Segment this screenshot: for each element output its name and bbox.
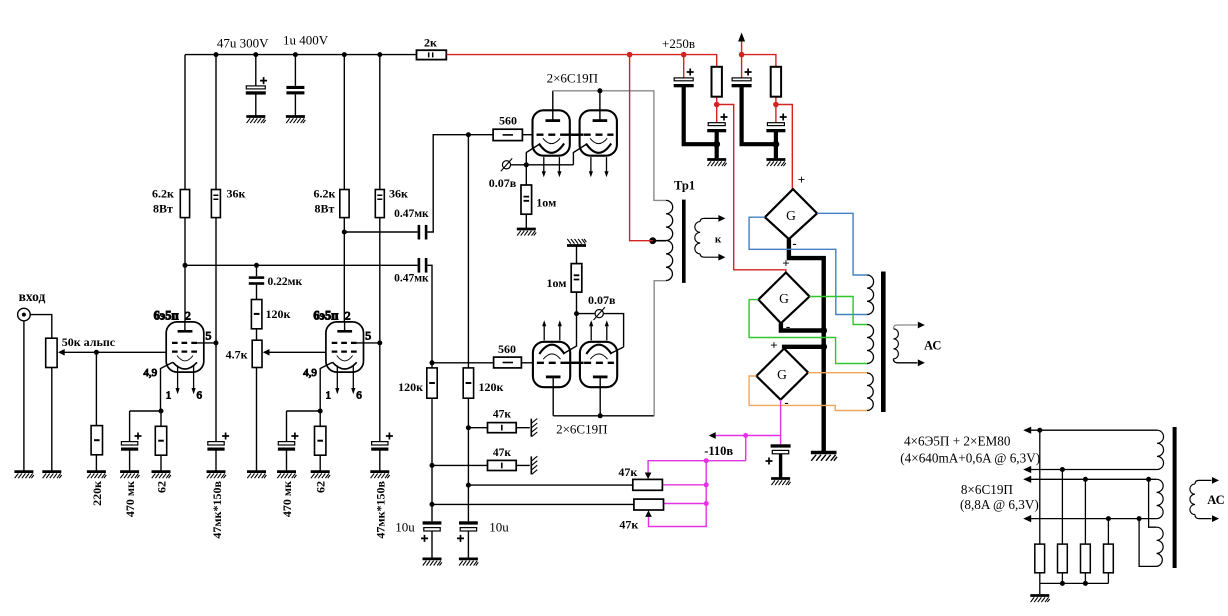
wire thick bus to G3 plus [784,347,824,349]
svg-text:G: G [777,367,787,382]
svg-text:1u 400V: 1u 400V [283,33,329,48]
resistor PSU R1 [712,67,722,97]
svg-text:к: к [715,234,722,246]
wire left screen lead [197,342,216,344]
svg-text:47u 300V: 47u 300V [217,36,269,51]
junction dot [466,483,471,488]
ground 62 left [152,472,171,479]
capacitor 10u right [457,521,478,542]
wire coupling cap C0.47a output up to upper 560 node [427,135,493,232]
wire right cathode [320,362,332,411]
junction dot [254,263,259,268]
wire orange G3 left to OPT coil3 bottom [749,376,867,411]
svg-text:вход: вход [19,289,46,304]
resistor 62 left [155,426,166,455]
svg-text:0.07в: 0.07в [588,293,616,307]
svg-text:50к альпс: 50к альпс [62,335,116,349]
wire pot bottom to ground [51,368,53,472]
wire lower grid dashes [537,362,614,364]
wire 220k branch [95,352,97,471]
junction dot [342,230,347,235]
chassis ground 47k-2 [531,456,537,474]
junction dot [430,502,435,507]
resistor 560 upper [493,129,522,140]
wire heater line 2 [1030,469,1157,471]
wire blue G1 right to OPT coil1 top [817,213,867,275]
wire magenta drop to pot row [745,436,747,461]
capacitor 47mk*150v left [207,433,229,451]
wire right 36k down to bypass cap [379,218,381,442]
wire magenta lower pot right [664,503,707,505]
wire humdinger R1 drop [1039,430,1041,583]
wire thick PSU group1 [684,86,717,158]
transformer heater winding A [1157,430,1164,469]
wire heater line 1 [1030,429,1157,431]
wire -110v cap to ground [779,454,782,478]
potentiometer 47k upper [633,479,663,490]
junction dot (red) [681,52,687,58]
node dots magenta [743,433,748,438]
potentiometer 50k volume [46,338,57,367]
arrow 4.7k wiper [263,349,270,356]
resistor 62 right [315,426,326,455]
tube U4 6C19P upper right [580,110,617,177]
test point 0.07v upper [501,158,512,171]
tube U3 6C19P upper left [533,110,570,177]
wire connector shell to ground [23,321,25,472]
svg-text:47к: 47к [619,518,638,532]
ground PSU group2 [766,160,785,167]
wire line4 to winding C bottom [1139,519,1157,567]
resistor 1om upper [521,185,532,214]
wire thick G1 minus to bus and bus to ground [789,239,824,452]
junction dot [1083,477,1088,482]
junction dot [377,340,382,345]
junction dot [597,88,602,93]
wire green G2 right to OPT coil2 top [810,297,868,325]
wire magenta pot row horizontal [648,461,746,473]
wire thick G2 minus to bus [781,323,824,330]
wire 1u cap stubs [294,55,296,117]
resistor 6.2k 8Bt right [340,190,349,218]
transformer Tr1 primary [666,200,673,280]
wire upper 1om branch [525,165,527,229]
svg-text:+: + [770,338,777,353]
wire 4.7k wiper from right grid [266,351,326,353]
junction dot (red) [714,102,720,108]
node dots left section [214,52,219,57]
svg-text:470 мк: 470 мк [123,481,137,517]
svg-text:0.07в: 0.07в [489,176,517,190]
wire upper 560 to tube grid [522,134,533,136]
capacitor PSU C2 [707,114,727,133]
svg-text:8×6С19П: 8×6С19П [961,482,1014,497]
tube U6 6C19P lower right [580,320,617,387]
wire 47k grid resistor 1 [468,427,529,429]
capacitor -110v filter [766,444,791,464]
junction dot [1137,516,1142,521]
wire below 47mk cap2 to ground [379,450,381,471]
svg-text:47к: 47к [493,447,512,459]
resistor 120k chain [251,300,262,329]
arrow mains bottom [1212,515,1219,522]
junction dot [430,360,435,365]
arrow mains top [1212,477,1219,484]
wire humdinger R4 drop [1107,519,1109,584]
wire upper anode leads [553,91,600,111]
node bus G2 [820,327,827,334]
wire left cathode RC row [130,411,161,472]
wire right screen lead [357,342,380,344]
arrow OPT secondary bottom [918,359,925,366]
svg-text:120к: 120к [266,307,291,321]
ground 470mk left [120,472,139,479]
svg-text:-110в: -110в [704,444,733,458]
svg-text:220к: 220к [90,481,104,506]
junction dot [1060,467,1065,472]
svg-text:АС: АС [1207,493,1224,507]
wire lower cathode bus [565,314,624,353]
svg-text:(4×640mA+0,6A @ 6,3V): (4×640mA+0,6A @ 6,3V) [900,450,1040,465]
ground 1om lower flipped [567,239,586,246]
junction dot [318,409,323,414]
junction dot (red) [739,52,745,58]
capacitor 1u 400V [286,86,304,95]
transformer Tr1 core [682,200,686,283]
svg-text:10u: 10u [395,520,415,535]
wire magenta G3 minus down to cap [780,400,782,445]
transformer heater core [1173,427,1177,568]
resistor 6.2k 8Bt left [180,190,189,218]
junction dot (magenta) [704,482,709,487]
wire green G2 left to OPT coil2 bottom [749,300,867,364]
arrow 50k wiper [58,349,65,356]
svg-text:1ом: 1ом [536,196,556,210]
junction dot [598,413,603,418]
wire Tr1 bottom to lower anode bus (grey) [654,281,666,416]
ground -110v cap [771,479,790,486]
svg-text:6.2к: 6.2к [152,187,174,201]
junction dot [183,263,188,268]
node dots heater [1037,428,1042,433]
wire lower 1om branch [576,246,578,314]
transformer OPT primary coil2 [867,325,874,364]
svg-text:8Вт: 8Вт [315,202,335,216]
wire heater line 4 [1030,518,1157,520]
capacitor PSU C4 [766,114,786,133]
wire left 36k down to bypass cap [215,218,217,442]
svg-text:47мк*150в: 47мк*150в [374,480,388,538]
svg-text:4×6Э5П + 2×ЕМ80: 4×6Э5П + 2×ЕМ80 [904,434,1011,449]
svg-text:2×6С19П: 2×6С19П [547,71,598,86]
ground 220k [87,472,106,479]
capacitor 47u 300V [246,77,267,95]
resistor 1om lower [571,264,582,293]
ground 47mk left [207,472,226,479]
transformer heater mains winding [1190,484,1195,515]
svg-text:+: + [798,172,805,187]
wire lower grid bias line x432 [431,363,433,522]
wire +250v red rail [446,55,716,67]
svg-text:6.2к: 6.2к [314,187,336,201]
svg-text:+250в: +250в [662,36,695,51]
svg-text:2к: 2к [424,36,437,50]
junction dot [466,425,471,430]
capacitor 470mk left [121,433,142,451]
capacitor 0.22mk [249,276,264,285]
arrow wiper lower pot [645,510,652,517]
wire rail to right 36k [379,55,381,190]
wire rail to left 36k [215,55,217,190]
junction dot [253,52,258,57]
arrow heater line2 [1023,466,1031,473]
resistor 47k grid 1 [488,423,517,433]
wire humdinger bottom rail [1040,582,1109,584]
resistor humdinger R3 [1081,544,1091,573]
svg-text:120к: 120к [398,380,423,394]
wire left 6.2k to left anode node [184,218,186,322]
bridge rectifier G3 [756,349,808,400]
wire below 47mk cap1 to ground [215,450,217,471]
svg-text:120к: 120к [479,380,504,394]
wire humdinger R2 drop [1061,470,1063,584]
wire blue G1 left to OPT coil1 bottom [749,217,867,314]
resistor 47k grid 2 [488,460,517,470]
ground 1om upper [517,229,536,236]
capacitor PSU C1 [674,69,694,88]
wire lower 560 to tube grid [521,362,533,364]
wire red arrow feed rail 2 [742,42,776,78]
wire lower 560 feed [432,362,494,364]
wire coupling cap C0.47a input [344,231,417,233]
ground 470mk right [277,472,296,479]
junction dot [94,350,99,355]
ground 47mk right [370,472,389,479]
resistor 2k (anode feed) [417,50,447,59]
wire thick PSU group2 [742,86,776,158]
ground input jack [14,472,33,479]
resistor 120k right of pair [463,368,473,398]
transformer OPT secondary [893,329,898,359]
junction dot [159,409,164,414]
resistor 560 lower [494,357,522,368]
svg-text:0.47мк: 0.47мк [394,273,429,285]
bridge rectifier G1 [765,189,817,239]
wire right 6.2k to right anode node [343,218,345,322]
node PSU group1 [713,141,720,148]
wire 47u cap stubs [255,55,257,117]
wire Tr1 center tap [653,240,666,242]
svg-text:470 мк: 470 мк [280,481,294,517]
wire magenta upper pot right [662,484,706,486]
junction dot [524,162,529,167]
resistor 120k left of pair [427,368,437,398]
node Tr1 tap [649,237,656,244]
wire pot wiper to left grid [61,351,166,353]
arrow up supply [738,33,745,42]
junction dot (red) [773,102,779,108]
node dots middle [466,132,471,137]
wire line3 to winding C top [1149,479,1157,527]
svg-text:560: 560 [499,114,517,128]
resistor 220k [91,426,102,455]
svg-text:Тр1: Тр1 [674,179,695,193]
potentiometer 4.7k [252,340,262,367]
resistor humdinger R1 [1035,544,1045,573]
ground 62 right [311,472,330,479]
arrow -110v left [709,432,716,439]
node dots red rail [627,52,633,58]
tube U2 6e5p right [303,308,371,401]
svg-text:62: 62 [155,481,169,493]
wire orange G3 right to OPT coil3 top [808,372,867,374]
wire upper cathode bus [511,145,586,165]
wire B+ top rail [185,54,417,56]
ground under 1u [286,117,305,124]
arrow heater line4 [1023,515,1031,522]
svg-text:G: G [786,208,796,223]
wire heater line 3 [1030,478,1157,480]
svg-text:0.22мк: 0.22мк [268,276,303,288]
node PSU group2 [773,141,780,148]
junction dot [1060,581,1065,586]
chassis ground 47k-1 [531,419,537,437]
ground volume pot [42,472,61,479]
arrow heater line3 [1023,476,1031,483]
arrow wiper upper pot [645,473,652,480]
transformer OPT primary coil1 [867,275,874,315]
wire bottom rail to ground [1039,583,1041,594]
ground PSU group1 [707,160,726,167]
wire bias feed to lower 47k pot [432,503,634,505]
junction dot [214,340,219,345]
wire red R1 bottom to mid bridge [717,97,786,273]
transformer Tr1 heater winding k [695,222,700,254]
ground under 4.7k chain [247,472,266,479]
ground speaker bus [811,453,837,461]
bridge rectifier G2 [758,273,809,324]
wire rail to left 6.2k [184,55,186,190]
junction dot [1146,477,1151,482]
ground heater network [1030,596,1049,603]
test point 0.07v lower [594,307,605,320]
svg-text:(8,8A @ 6,3V): (8,8A @ 6,3V) [960,497,1039,512]
wire 10u right to ground [467,531,469,559]
wire 10u left to ground [431,531,433,559]
capacitor PSU C3 [732,69,752,88]
ground under 47u [246,117,265,124]
capacitor 470mk right [278,433,299,451]
junction dot [342,52,347,57]
arrow heater line1 [1023,427,1031,434]
junction dot (magenta) [704,501,709,506]
resistor humdinger R2 [1058,544,1068,573]
arrow k winding bottom [718,254,725,261]
svg-text:G: G [779,291,789,306]
wire upper grid bias line x468 [467,135,469,522]
wire lower anode bus [553,415,654,417]
node bus G3 [820,343,827,350]
svg-text:36к: 36к [227,187,246,201]
wire red stub cap1 [683,55,685,78]
transformer OPT core [881,272,886,413]
capacitor 47mk*150v right [371,433,393,451]
resistor 36k right [375,190,384,218]
transformer heater winding B [1157,479,1164,518]
svg-text:47мк*150в: 47мк*150в [210,480,224,538]
svg-text:1ом: 1ом [546,276,566,290]
wire red R2 bottom to top bridge [776,97,792,190]
wire magenta right bus of pots [649,461,707,527]
capacitor 0.47mk lower [418,258,428,273]
capacitor 10u left [421,521,441,542]
wire magenta -110v branch [714,435,781,437]
tube U1 6e5p left [143,308,211,401]
ground 10u right [459,559,478,566]
transformer OPT primary coil3 [867,373,873,411]
junction dot [574,311,579,316]
svg-text:47к: 47к [618,465,637,479]
svg-text:0.47мк: 0.47мк [394,208,429,220]
junction dot (magenta) [704,458,709,463]
wire upper anode bus (grey) [553,91,666,201]
wire lower anode leads [553,387,600,416]
svg-text:47к: 47к [493,409,512,421]
resistor PSU R2 [771,67,781,97]
tube U5 6C19P lower left [533,320,570,387]
ground 10u left [423,559,442,566]
connector input jack [18,308,31,321]
svg-text:8Вт: 8Вт [153,202,173,216]
wire input connector to pot [30,315,52,339]
wire upper grid dashes [537,133,614,135]
wire humdinger R3 drop [1084,479,1086,583]
svg-text:10u: 10u [489,520,509,535]
svg-text:4.7к: 4.7к [226,347,248,361]
wire bias feed to upper 47k pot [468,484,632,486]
svg-text:36к: 36к [389,187,408,201]
junction dot [1083,581,1088,586]
wire red drop to Tr1 tap [630,55,653,241]
junction dot [430,463,435,468]
transformer heater winding C [1157,527,1164,566]
wire left anode row y265 [185,264,418,266]
capacitor 0.47mk upper [418,225,428,240]
svg-text:АС: АС [924,338,941,352]
arrow k winding top [718,215,725,222]
svg-text:-: - [792,236,796,251]
potentiometer 47k lower [634,499,664,510]
wire 0.22mk chain [256,265,258,471]
wire 47k grid resistor 2 [432,464,530,466]
junction dot [293,52,298,57]
svg-text:62: 62 [314,481,328,493]
arrow OPT secondary top [918,322,925,329]
resistor humdinger R4 [1104,544,1114,573]
svg-text:560: 560 [498,342,516,356]
wire rail to right 6.2k [343,55,345,190]
wire coupling cap C0.47b output down [427,265,432,363]
wire left cathode [161,362,173,411]
junction dot [377,52,382,57]
junction dot [1106,516,1111,521]
wire right cathode RC row [287,411,321,472]
svg-text:2×6С19П: 2×6С19П [556,422,607,437]
resistor 36k left [211,190,220,218]
svg-text:-: - [784,395,788,410]
